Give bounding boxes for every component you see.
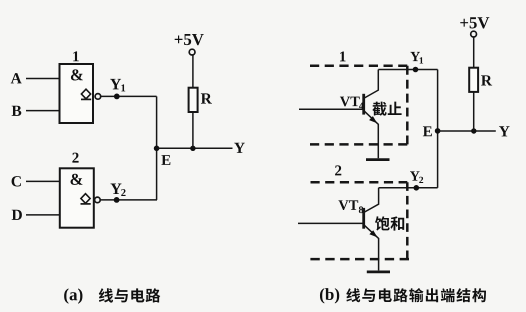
dashed box 1 top edge	[310, 65, 407, 68]
resistor R2 body	[469, 68, 478, 92]
node Yb label	[499, 126, 510, 136]
and-gate U1 label 1	[73, 51, 79, 61]
wire Y2 output	[100, 199, 157, 201]
ground under VT8	[367, 270, 390, 273]
label saturated	[375, 216, 404, 230]
transistor VT4 base bar	[362, 94, 365, 115]
wire +5Vb to resistor	[473, 37, 475, 68]
node A label	[11, 73, 22, 83]
transistor VT4 collector	[364, 70, 379, 99]
caption (a)	[64, 288, 82, 303]
node B label	[12, 106, 22, 116]
and-gate U2 label 2	[72, 153, 78, 163]
node Y2b junction	[414, 185, 420, 191]
node R junction	[190, 146, 195, 151]
transistor VT4 base wire	[299, 108, 364, 110]
node Y1b label	[410, 52, 423, 64]
transistor VT8 collector	[364, 188, 379, 213]
node Y label	[234, 143, 245, 153]
dashed box 1 right edge	[406, 66, 409, 145]
wire Eb to Yb	[438, 130, 496, 132]
wire B input	[26, 110, 60, 112]
and-gate U1 open-collector diamond	[81, 89, 90, 99]
transistor VT8 label	[338, 200, 363, 213]
and-gate U2 body	[60, 168, 94, 227]
and-gate U1 ampersand	[71, 69, 83, 80]
and-gate U1 output bubble	[95, 94, 101, 100]
transistor VT4 emitter	[364, 111, 379, 159]
resistor R2 label	[481, 75, 492, 85]
dashed box 2 bottom edge	[310, 258, 409, 261]
node E junction	[154, 146, 160, 152]
wire Y2b row	[379, 187, 438, 189]
node Rb junction	[471, 128, 476, 133]
transistor VT8 base bar	[362, 208, 365, 229]
node Eb label	[423, 126, 432, 136]
dashed box 2 label	[335, 165, 341, 175]
node Eb junction	[435, 128, 441, 134]
transistor VT4 emitter arrow	[369, 116, 377, 123]
node Y2b label	[410, 171, 423, 183]
caption (b)	[320, 288, 339, 303]
transistor VT8 emitter	[364, 225, 379, 271]
wire Y1 output	[101, 95, 157, 97]
label cutoff	[372, 102, 401, 116]
power +5V label	[175, 34, 204, 45]
wire E to Y	[157, 147, 233, 149]
wire C input	[26, 180, 60, 182]
resistor R1 body	[189, 88, 198, 112]
node C label	[12, 176, 21, 186]
power +5Vb label	[460, 17, 489, 28]
transistor VT8 base wire	[298, 222, 364, 224]
dashed box 2 top edge	[311, 181, 408, 184]
and-gate U2 output bubble	[95, 197, 101, 203]
node Y2 junction	[114, 197, 120, 203]
power +5V terminal	[189, 49, 195, 55]
resistor R1 label	[201, 93, 212, 103]
dashed box 1 bottom edge	[310, 143, 407, 146]
node Y1b junction	[413, 67, 419, 73]
and-gate U2 ampersand	[71, 174, 83, 185]
ground under VT4	[366, 158, 390, 161]
dashed box 2 right edge	[406, 182, 409, 259]
node D label	[12, 210, 22, 220]
wire vertical bus Y1-Y2	[156, 96, 158, 199]
wire A input	[26, 78, 60, 80]
node Y1 junction	[114, 94, 120, 100]
power +5Vb terminal	[471, 31, 477, 37]
wire vertical bus b	[437, 70, 439, 188]
dashed box 1 label	[340, 51, 346, 61]
and-gate U2 open-collector diamond	[81, 194, 90, 204]
node Y2 label	[111, 184, 126, 196]
wire VT4 collector row	[378, 69, 437, 71]
wire resistor R2 to Eb row	[473, 92, 475, 131]
transistor VT8 emitter arrow	[369, 230, 377, 237]
node Y1 label	[110, 79, 125, 92]
wire D input	[26, 214, 60, 216]
and-gate U1 body	[60, 64, 94, 123]
node E label	[161, 155, 170, 165]
wire +5V to resistor	[192, 55, 194, 88]
transistor VT4 label	[340, 97, 364, 109]
wire resistor to E row	[192, 112, 194, 148]
